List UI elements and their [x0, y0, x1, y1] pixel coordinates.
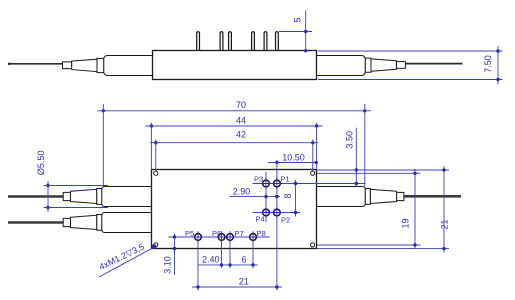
boot upper-left (top view) [63, 189, 102, 205]
node line column P5 [197, 237, 199, 291]
svg-text:P8: P8 [257, 229, 266, 238]
pin P2 [271, 207, 282, 218]
dimension 2.90 (P3 to P1 column) [230, 187, 281, 199]
svg-text:42: 42 [236, 130, 246, 140]
svg-text:3.10: 3.10 [163, 256, 173, 274]
pin P4 [260, 207, 271, 218]
corner hole bottom-right [311, 243, 315, 247]
fiber right (top view) [400, 195, 461, 198]
pin 2 (side view, col P6) [220, 32, 223, 51]
pin 6 (side view, col P1/P2) [276, 32, 279, 51]
pin P5 [192, 231, 203, 242]
boot lower-left (top view) [63, 215, 102, 231]
pin P6 [216, 231, 227, 242]
dimension 42 (hole spacing horizontal) [150, 130, 319, 172]
boot right (side view) [365, 58, 405, 72]
svg-text:8: 8 [283, 193, 293, 198]
fiber left (side view) [8, 63, 64, 66]
fiber lower-left (top view) [8, 221, 65, 224]
dimension 5 (pin height) [279, 11, 312, 53]
dimension 7.50 (package height) [318, 46, 503, 85]
dimension 3.10 (pin row to body edge) [163, 234, 177, 276]
snout lower-left (top view) [102, 213, 152, 233]
svg-text:P7: P7 [235, 229, 244, 238]
pin 3 (side view, col P7) [229, 32, 232, 51]
node line pin row P3-P1 [253, 183, 366, 185]
svg-text:P4: P4 [256, 215, 265, 224]
node line column P8 [252, 237, 254, 268]
pin P3 [260, 178, 271, 189]
pin 4 (side view, col P8) [252, 32, 255, 51]
svg-text:P2: P2 [281, 215, 290, 224]
extension lines right side (19 / 21) [317, 170, 449, 249]
leader 4xM1.2 depth 3.5 (mounting holes) [97, 242, 156, 277]
svg-text:7.50: 7.50 [483, 55, 493, 73]
svg-text:P5: P5 [185, 229, 194, 238]
svg-text:44: 44 [236, 115, 246, 125]
snout right (top view) [317, 187, 366, 207]
dimension diameter 5.50 (snout) [36, 151, 108, 212]
pin 1 (side view, col P5) [197, 32, 200, 51]
node line column P1/P2 [276, 160, 278, 291]
dimension 21 (body width) [440, 166, 450, 253]
svg-text:P6: P6 [212, 229, 221, 238]
dimension 10.50 (P1 column to body edge) [268, 153, 318, 165]
snout upper-left (top view) [102, 187, 152, 207]
snout left (side view) [104, 56, 153, 76]
dimension 21 bottom (P5 to P2 column) [192, 277, 282, 289]
node line column P3/P4 [265, 172, 267, 222]
fiber right (side view) [403, 63, 463, 65]
svg-text:Ø5.50: Ø5.50 [36, 151, 46, 176]
svg-text:3.50: 3.50 [345, 131, 355, 149]
dimension 3.50 (body edge to pin row P1) [345, 128, 358, 187]
dimension 70 (overall) [97, 100, 371, 186]
corner hole top-right [311, 171, 315, 175]
node line pin row P5-P8 [169, 236, 271, 238]
svg-text:19: 19 [401, 218, 411, 228]
corner hole top-left [154, 171, 158, 175]
corner hole bottom-left [154, 243, 158, 247]
svg-text:21: 21 [440, 219, 450, 229]
svg-text:10.50: 10.50 [282, 153, 305, 163]
svg-text:2.90: 2.90 [233, 187, 251, 197]
svg-text:P1: P1 [281, 174, 290, 183]
dimension 19 (hole spacing vertical) [401, 169, 417, 249]
node line column P7 [229, 237, 231, 268]
svg-text:5: 5 [293, 17, 303, 22]
svg-text:2.40: 2.40 [202, 255, 220, 265]
svg-text:P3: P3 [254, 174, 263, 183]
pin P1 [271, 178, 282, 189]
fiber upper-left (top view) [8, 195, 65, 198]
svg-text:6: 6 [241, 255, 246, 265]
pin P7 [224, 231, 235, 242]
node line pin row P4-P2 [253, 212, 301, 214]
snout right (side view) [317, 56, 366, 76]
boot left (side view) [63, 58, 104, 72]
dimension 44 (body length) [146, 115, 323, 170]
pin 5 (side view, col P3/P4) [264, 32, 267, 51]
body (top view) [152, 170, 317, 249]
body (side view) [153, 51, 317, 80]
boot right (top view) [365, 189, 404, 205]
svg-text:21: 21 [239, 277, 249, 287]
pin P8 [247, 231, 258, 242]
svg-text:70: 70 [236, 100, 246, 110]
dimension 8 (pin row spacing) [283, 180, 358, 217]
dimension 2.40 and 6 (pin spacings) [198, 255, 258, 267]
node line column P6 [221, 237, 223, 268]
